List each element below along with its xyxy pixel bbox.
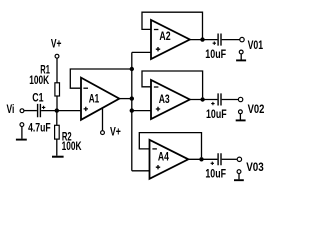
svg-text:Vi: Vi — [7, 102, 15, 116]
ground (R2) — [52, 156, 64, 158]
wire A3 feedback — [142, 71, 203, 97]
junction dot A4 output — [199, 157, 203, 161]
wire node to R2 — [56, 111, 58, 126]
output terminal V02 — [238, 97, 264, 116]
wire V+ to R1 — [56, 58, 58, 83]
op-amp A3 — [151, 80, 190, 119]
capacitor 10uF (output 3) — [205, 153, 226, 181]
wire A4 feedback — [139, 133, 201, 158]
capacitor 10uF (output 1) — [205, 34, 226, 62]
wire cap to V03 terminal — [222, 158, 237, 160]
wire R1 to node — [56, 96, 58, 111]
wire R2 to ground — [56, 139, 58, 156]
op-amp A1 — [81, 78, 119, 120]
output terminal V01 — [240, 37, 264, 52]
svg-text:V+: V+ — [110, 125, 121, 139]
wire bus to A4 + input — [132, 170, 150, 172]
svg-text:100K: 100K — [62, 139, 82, 153]
ground (output 2 reference) — [236, 110, 246, 121]
wire C1 to node to A1 + input — [41, 110, 80, 112]
resistor R2 — [55, 125, 82, 153]
svg-text:V+: V+ — [51, 37, 62, 51]
resistor R1 — [29, 63, 59, 97]
output terminal V03 — [237, 157, 264, 174]
wire A2 output — [190, 39, 218, 41]
wire A2 feedback — [142, 12, 203, 37]
input terminal Vi — [7, 102, 24, 116]
svg-text:10uF: 10uF — [206, 107, 227, 121]
wire bus to A2 + input — [132, 51, 151, 53]
wire A1 feedback (output to - input) — [70, 69, 132, 88]
op-amp A4 — [150, 140, 189, 179]
ground (output 1 reference) — [236, 50, 246, 60]
op-amp A2 — [151, 20, 190, 59]
svg-text:A3: A3 — [159, 92, 170, 106]
junction dot A3 output — [200, 97, 204, 101]
wire bus to A3 + input — [132, 110, 151, 112]
ground (output 3 reference) — [234, 170, 244, 180]
svg-text:C1: C1 — [32, 91, 44, 105]
junction dot A2 output — [200, 37, 204, 41]
svg-text:A4: A4 — [158, 149, 169, 163]
svg-text:4.7uF: 4.7uF — [28, 121, 51, 135]
wire cap to V01 terminal — [222, 39, 240, 41]
svg-text:V02: V02 — [248, 102, 265, 116]
svg-text:10uF: 10uF — [205, 167, 226, 181]
wire Vi to C1 — [24, 110, 37, 112]
ground (input reference) — [16, 123, 27, 140]
wire A3 output — [190, 99, 218, 101]
wire A1 output to bus — [119, 98, 132, 100]
power terminal V+ (top left) — [51, 37, 62, 59]
wire A4 output — [188, 158, 217, 160]
power stub V+ (A1) — [101, 108, 121, 138]
node junction dot — [55, 108, 59, 112]
svg-text:V03: V03 — [246, 160, 264, 174]
svg-text:A2: A2 — [159, 29, 171, 43]
svg-text:10uF: 10uF — [205, 47, 226, 61]
svg-text:100K: 100K — [29, 73, 49, 87]
capacitor C1 4.7uF — [28, 91, 51, 135]
svg-text:A1: A1 — [89, 91, 100, 105]
capacitor 10uF (output 2) — [206, 93, 227, 121]
junction dot A1 feedback — [130, 67, 134, 71]
junction dot A1 output — [130, 96, 134, 100]
junction dot A3 branch — [130, 108, 134, 112]
bus wire (A1 output distribution) — [131, 52, 133, 170]
svg-text:V01: V01 — [248, 38, 264, 52]
wire cap to V02 terminal — [222, 99, 238, 101]
